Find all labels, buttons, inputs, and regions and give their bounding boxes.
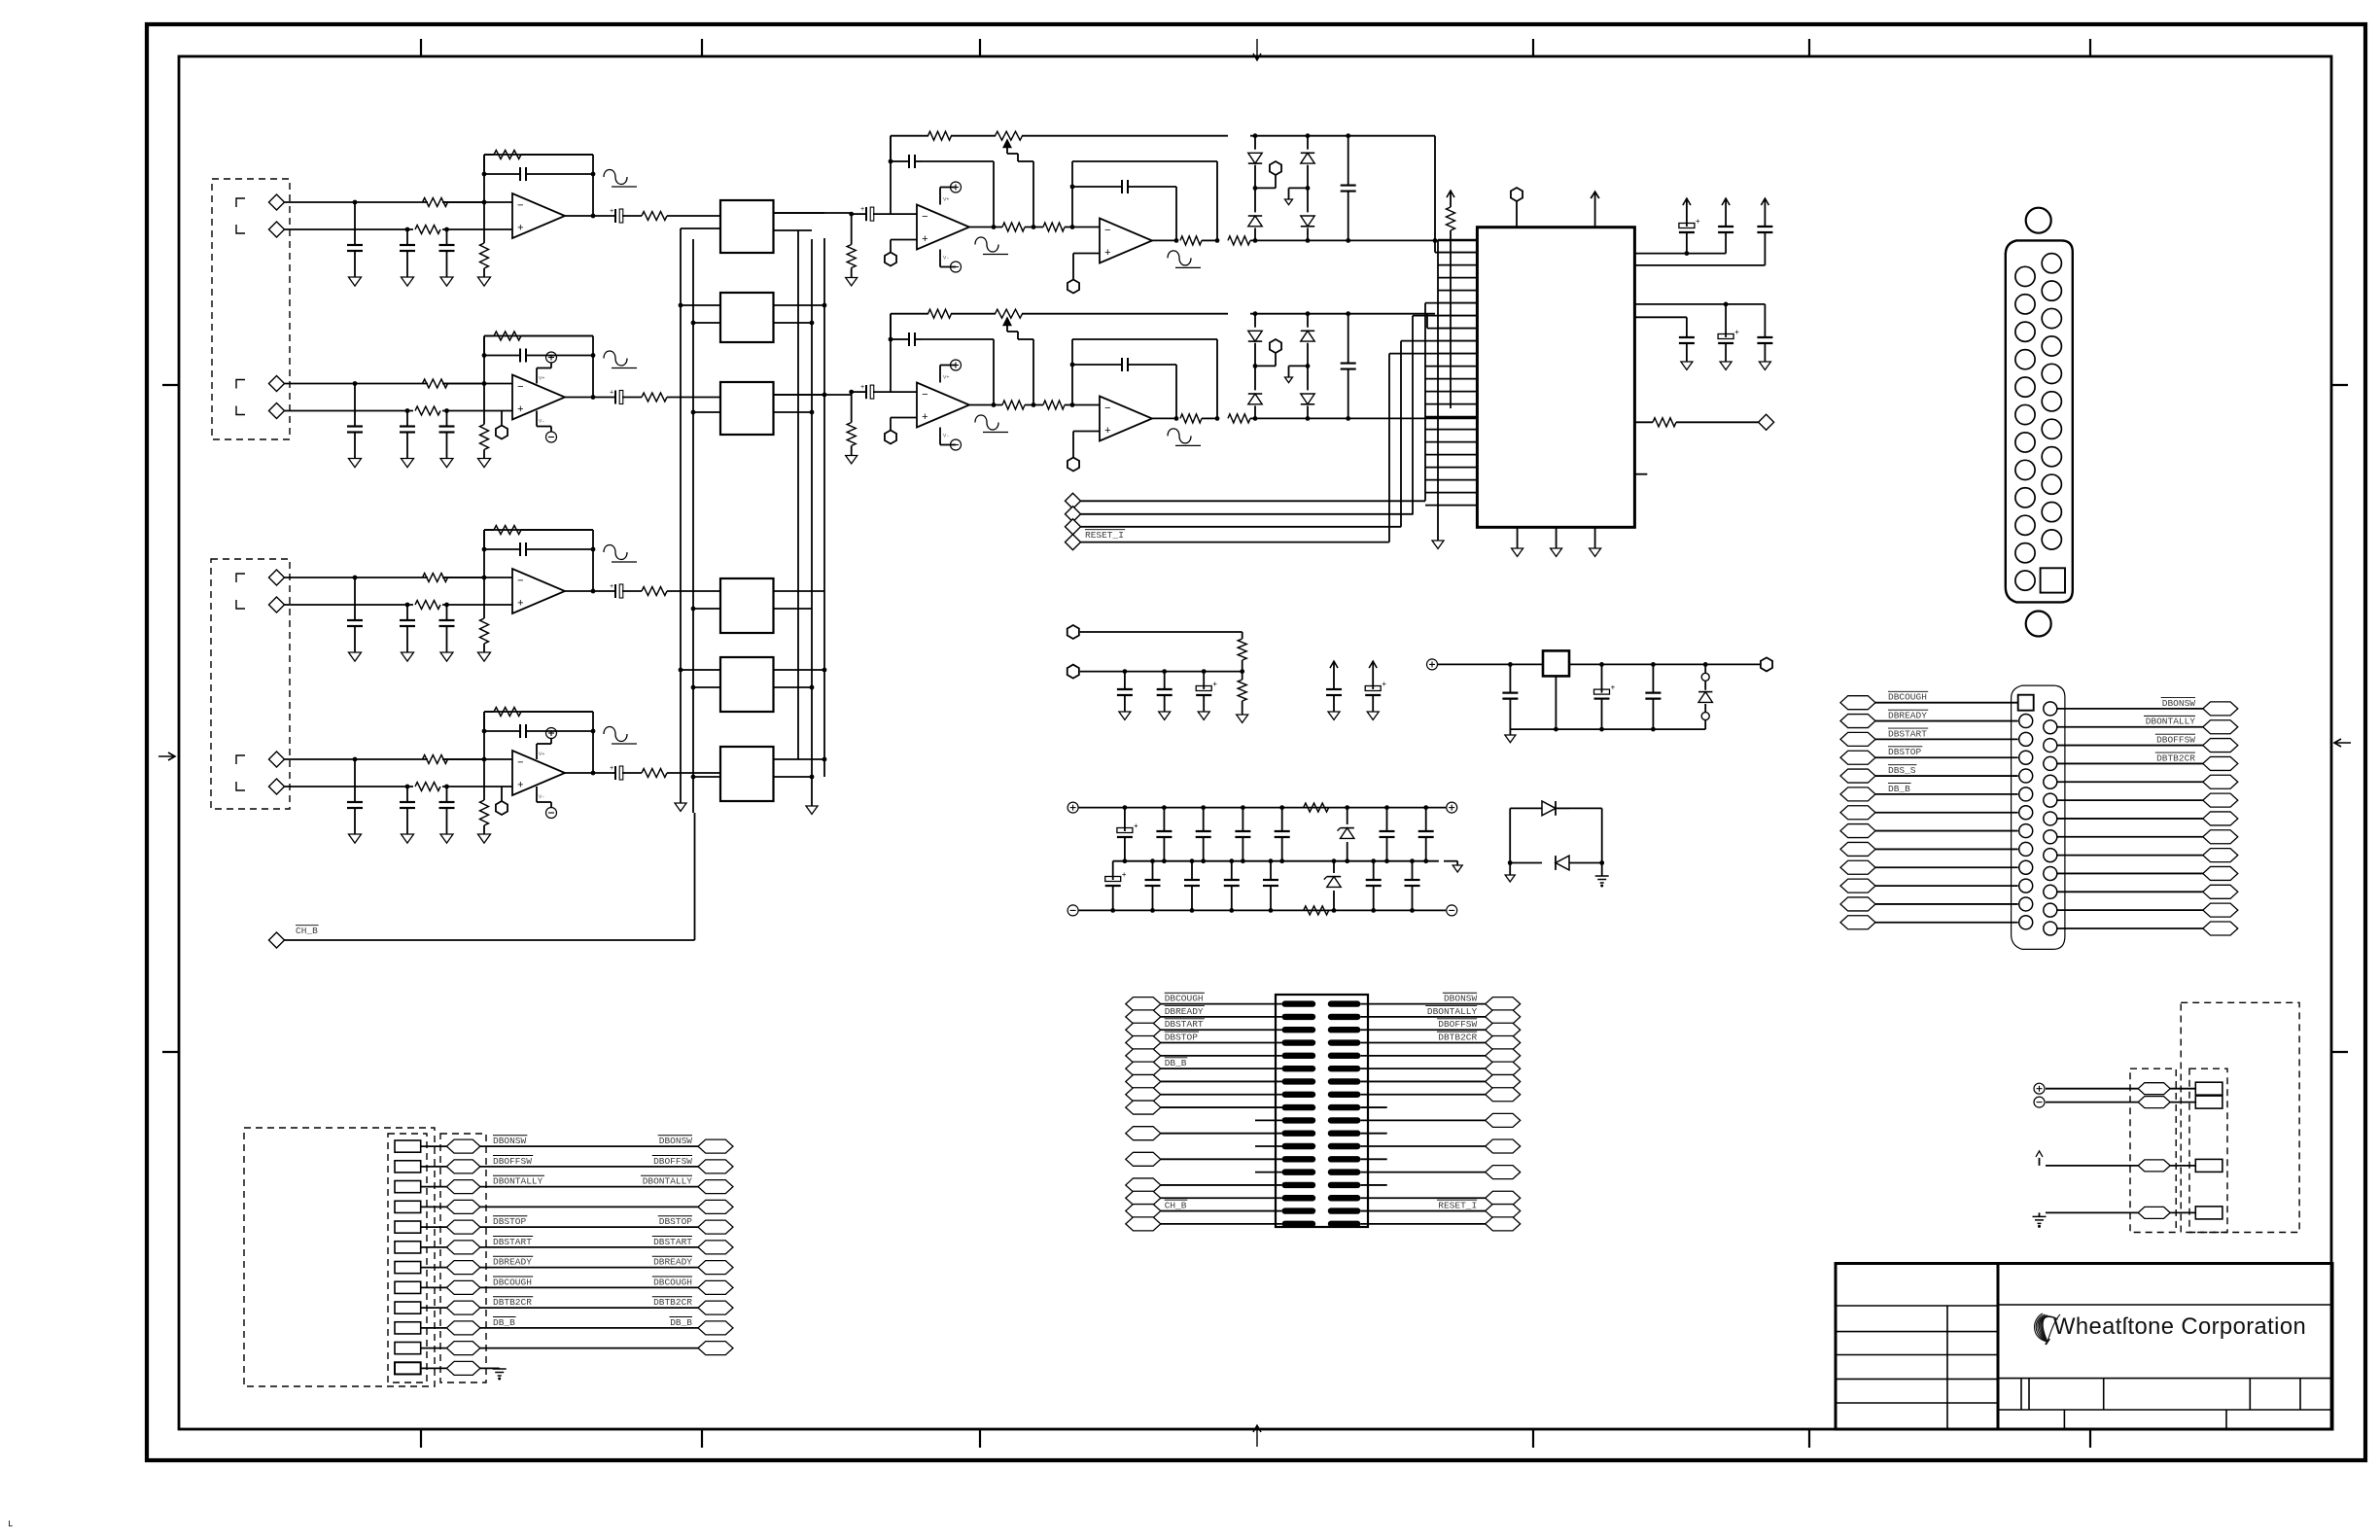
- trimmer leg vertical: [1032, 161, 1034, 227]
- aux diode D1 (right-pointing): [1542, 801, 1556, 816]
- feedback resistor: [494, 332, 521, 340]
- J4 row wire to tag: [421, 1307, 447, 1309]
- interstage resistor 2: [1043, 223, 1065, 231]
- J4 row 12 pin rect: [395, 1362, 421, 1374]
- left bus wire: [692, 239, 694, 813]
- J3 left wire + tag: [1126, 1049, 1161, 1063]
- svg-text:+: +: [922, 412, 928, 424]
- IC bus vertical to ground: [1437, 240, 1439, 541]
- IC left pin stubs: [1438, 239, 1477, 241]
- J4 row right hex tag: [698, 1241, 733, 1254]
- stage B input junction: [1070, 225, 1075, 229]
- regulator ground arrow: [1509, 729, 1511, 735]
- J3 right wire + tag: [1486, 1113, 1521, 1127]
- svg-text:−: −: [1104, 403, 1111, 415]
- bias resistor to ground: [483, 577, 485, 618]
- sine response symbol: [604, 351, 627, 366]
- J3 right wire + tag: [1486, 1217, 1521, 1231]
- series resistor to relay: [642, 393, 667, 402]
- svg-text:+: +: [1122, 871, 1127, 880]
- top row filter caps right: [1384, 805, 1389, 810]
- top row filter caps: [1123, 805, 1128, 810]
- IC pullup resistor: [1450, 190, 1452, 192]
- J4 row hex tag: [446, 1321, 480, 1335]
- input op-amp: [512, 751, 565, 795]
- J4 row 1 pin rect: [395, 1140, 421, 1152]
- Wheatstone logo feather: [2035, 1313, 2060, 1345]
- interstage resistor 1: [1002, 401, 1025, 409]
- output wire: [565, 397, 614, 399]
- svg-text:DB_B: DB_B: [493, 1317, 515, 1328]
- filter cap C to ground: [406, 605, 408, 620]
- fan wire from chainB top row: [1426, 314, 1428, 329]
- J3 right wire + tag: [1486, 1062, 1521, 1075]
- sine symbol A: [975, 237, 998, 252]
- feedback tap to output: [993, 161, 995, 227]
- output coupling cap (polarized): [614, 209, 616, 223]
- J3 right wire + tag: [1486, 1010, 1521, 1024]
- J4 row hex tag: [446, 1241, 480, 1254]
- J4 row 5 pin rect: [395, 1221, 421, 1233]
- clamp mid hexpad: [1270, 161, 1281, 175]
- rail mid ground arrow: [1444, 860, 1457, 862]
- series resistor R (minus leg): [423, 755, 448, 764]
- svg-text:L: L: [8, 1520, 13, 1529]
- J3 left wire + tag: [1126, 1191, 1161, 1205]
- border left center arrow: [158, 755, 175, 757]
- clamp diode column 1: [1253, 238, 1258, 243]
- clamp mid arrow: [1289, 187, 1309, 189]
- input op-amp: [512, 193, 565, 238]
- decoupling cap: [1725, 197, 1727, 199]
- svg-text:+: +: [1212, 681, 1217, 689]
- J4 last row wire to ground: [480, 1367, 500, 1369]
- svg-text:Wheatſtone Corporation: Wheatſtone Corporation: [2053, 1313, 2306, 1340]
- border top center arrow: [1256, 39, 1258, 60]
- output wire: [565, 215, 614, 217]
- svg-text:DBCOUGH: DBCOUGH: [493, 1277, 532, 1287]
- J4 row net wire: [480, 1267, 698, 1269]
- svg-text:DBONTALLY: DBONTALLY: [493, 1176, 543, 1187]
- output resistor 2: [1228, 414, 1250, 423]
- CH_B terminal diamond: [269, 932, 285, 948]
- svg-text:DBSTOP: DBSTOP: [1165, 1032, 1199, 1043]
- op-amp A V- terminal: [939, 428, 941, 445]
- J2 right net tag: [2203, 812, 2238, 825]
- J3 right stub wire: [1360, 1106, 1386, 1108]
- J3 right wire + tag: [1486, 1074, 1521, 1088]
- relay row1 to chain A wire: [774, 212, 852, 214]
- rail mid wire: [1113, 860, 1439, 862]
- sine symbol B: [1168, 429, 1191, 443]
- J2 DB body outline: [2012, 685, 2065, 949]
- series resistor to relay: [642, 212, 667, 221]
- J4 row hex tag: [446, 1220, 480, 1234]
- svg-text:DBSTOP: DBSTOP: [493, 1216, 527, 1227]
- J4 row net wire: [480, 1286, 698, 1288]
- svg-text:DBOFFSW: DBOFFSW: [653, 1156, 692, 1167]
- input terminal + (diamond): [269, 376, 285, 392]
- svg-text:V+: V+: [539, 375, 545, 382]
- J4 row right hex tag: [698, 1301, 733, 1314]
- trimmer wiper arrow: [1003, 140, 1011, 148]
- op-amp stage B: [1100, 219, 1152, 263]
- connector bracket marks: [236, 198, 245, 207]
- svg-text:DBCOUGH: DBCOUGH: [1888, 692, 1927, 703]
- op-amp + input hexpad: [496, 426, 507, 439]
- J1 DB25 mounting hole bottom: [2026, 612, 2051, 637]
- border zone ticks left: [162, 384, 179, 386]
- filter cap C to ground: [406, 787, 408, 802]
- filter cap C to ground: [446, 229, 448, 245]
- op-amp A V+ terminal: [939, 366, 941, 383]
- J3 right wire + tag: [1486, 1205, 1521, 1218]
- J3 right wire + tag: [1486, 1139, 1521, 1153]
- top rail series resistor: [1304, 803, 1329, 812]
- filter cap C to ground: [354, 202, 356, 245]
- regulator ground lead: [1555, 677, 1557, 730]
- feedback cap B row: [1072, 186, 1121, 188]
- svg-text:V-: V-: [539, 418, 545, 425]
- J4 row hex tag: [446, 1200, 480, 1213]
- filter cap C to ground: [406, 229, 408, 245]
- svg-text:DBREADY: DBREADY: [1888, 711, 1927, 721]
- title block left table rows: [1836, 1305, 1998, 1307]
- svg-text:RESET_I: RESET_I: [1438, 1201, 1477, 1211]
- rail V+ terminal left: [1067, 802, 1078, 813]
- svg-text:DB_B: DB_B: [1165, 1058, 1187, 1068]
- svg-text:DBOFFSW: DBOFFSW: [493, 1156, 532, 1167]
- decoupling cap: [1764, 304, 1766, 329]
- svg-text:+: +: [1696, 218, 1700, 227]
- svg-text:DBONSW: DBONSW: [659, 1136, 693, 1146]
- relay K6: [720, 747, 774, 801]
- feedback cap: [519, 724, 521, 738]
- svg-text:+: +: [517, 781, 524, 792]
- input terminal - (diamond): [269, 597, 285, 612]
- J3 pin pair row 16: [1282, 1195, 1316, 1201]
- svg-text:DBSTART: DBSTART: [1888, 728, 1927, 739]
- trimmer leg vertical: [1032, 339, 1034, 405]
- op-amp + input hexpad: [496, 801, 507, 815]
- J4 row wire to tag: [421, 1166, 447, 1168]
- svg-text:+: +: [1104, 248, 1111, 260]
- IC top hexpad: [1511, 188, 1522, 201]
- svg-text:DBREADY: DBREADY: [1165, 1006, 1204, 1017]
- J3 right wire + tag: [1486, 1166, 1521, 1179]
- feedback row B wire: [1071, 161, 1073, 227]
- J3 pin pair row 18: [1282, 1221, 1316, 1227]
- J3 right wire + tag: [1486, 1036, 1521, 1050]
- V- supply terminal: [536, 787, 538, 802]
- series resistor to relay: [642, 587, 667, 596]
- feedback tap to output: [993, 339, 995, 405]
- clamp mid arrow: [1289, 365, 1309, 367]
- border zone ticks bottom: [420, 1429, 422, 1448]
- J2 right net tag: [2203, 775, 2238, 788]
- power dropper resistor chain: [1240, 669, 1244, 674]
- svg-text:DBCOUGH: DBCOUGH: [653, 1277, 692, 1287]
- J4 row net wire: [480, 1347, 698, 1349]
- wire pair from connector: [285, 758, 429, 760]
- op-amp stage B: [1100, 397, 1152, 441]
- svg-text:DBOFFSW: DBOFFSW: [2156, 735, 2195, 746]
- svg-text:+: +: [610, 583, 613, 591]
- J4 row wire to tag: [421, 1367, 447, 1369]
- title block logo band: [1998, 1304, 2332, 1306]
- J4 row 2 pin rect: [395, 1161, 421, 1172]
- series resistor R (minus leg): [423, 379, 448, 388]
- relay K3: [720, 382, 774, 435]
- svg-text:+: +: [1382, 681, 1386, 689]
- bottom rail series resistor: [1304, 906, 1329, 915]
- svg-text:DBCOUGH: DBCOUGH: [1165, 994, 1204, 1004]
- regulator output wire: [1569, 663, 1760, 665]
- svg-text:+: +: [1734, 329, 1739, 337]
- title block outline: [1836, 1264, 2332, 1430]
- series resistor R (minus leg): [423, 198, 448, 207]
- feedback cap B row: [1072, 364, 1121, 366]
- J4 row 6 pin rect: [395, 1242, 421, 1253]
- right bus wire: [797, 230, 799, 759]
- svg-text:DBSTART: DBSTART: [493, 1237, 532, 1247]
- svg-text:+: +: [922, 234, 928, 246]
- relay row3 to chain B wire: [774, 394, 852, 396]
- J4 row net wire: [480, 1327, 698, 1329]
- J4 row 7 pin rect: [395, 1262, 421, 1274]
- regulator output cap 2: [1652, 664, 1654, 692]
- svg-text:DBSTOP: DBSTOP: [1888, 747, 1922, 757]
- svg-text:V-: V-: [539, 793, 545, 800]
- svg-text:−: −: [1104, 226, 1111, 237]
- J5 earth ground: [2033, 1215, 2047, 1217]
- J3 left wire + tag: [1126, 1205, 1161, 1218]
- J3 right wire + tag: [1486, 1023, 1521, 1036]
- J3 right wire + tag: [1486, 1191, 1521, 1205]
- svg-text:+: +: [860, 206, 864, 214]
- J3 pin pair row 7: [1282, 1078, 1316, 1084]
- decoupling cap: [1686, 197, 1688, 199]
- output resistor 1: [1180, 414, 1202, 423]
- J5 row hex tag: [2138, 1207, 2170, 1218]
- J4 row net wire: [480, 1226, 698, 1228]
- opamp B output: [1152, 239, 1176, 241]
- J5 row wire: [2046, 1165, 2138, 1167]
- aux control diamonds: [1066, 493, 1081, 508]
- input terminal + (diamond): [269, 752, 285, 767]
- J3 pin pair row 13: [1282, 1156, 1316, 1162]
- interstage resistor 2: [1043, 401, 1065, 409]
- input connector dashed box A (CH A): [212, 179, 290, 439]
- aux diode loop verticals: [1509, 808, 1511, 862]
- output wire: [565, 590, 614, 592]
- J3 pin pair row 8: [1282, 1092, 1316, 1098]
- series resistor R (minus leg): [423, 574, 448, 582]
- aux loop ground left: [1509, 863, 1511, 876]
- J3 left wire + tag: [1126, 1178, 1161, 1192]
- J4 row 8 pin rect: [395, 1281, 421, 1293]
- svg-text:−: −: [517, 577, 524, 588]
- J3 pin pair row 14: [1282, 1169, 1316, 1174]
- svg-text:+: +: [860, 384, 864, 392]
- junction dots: [353, 381, 358, 386]
- J1 DB25 pin 25 square: [2041, 568, 2065, 592]
- feedback top row: [891, 313, 928, 315]
- output hf cap: [1346, 238, 1350, 243]
- J2 right net tag: [2203, 702, 2238, 716]
- feedback resistor: [494, 151, 521, 159]
- J4 row right hex tag: [698, 1261, 733, 1275]
- series resistor R (plus leg): [415, 601, 440, 610]
- IC right decoupling group 2: [1634, 303, 1765, 305]
- op-amp B + input hexpad: [1067, 458, 1079, 472]
- wire pair from connector: [285, 201, 429, 203]
- fan wire chain A output to pin1: [1435, 239, 1477, 241]
- input terminal + (diamond): [269, 194, 285, 210]
- title block left table column: [1946, 1306, 1948, 1429]
- interstage resistor 1: [1002, 223, 1025, 231]
- J3 right stub wire: [1360, 1184, 1386, 1186]
- input terminal - (diamond): [269, 403, 285, 419]
- J4 row wire to tag: [421, 1347, 447, 1349]
- relay K4: [720, 578, 774, 633]
- svg-text:V-: V-: [943, 433, 950, 439]
- svg-text:+: +: [1104, 426, 1111, 437]
- CH_B bus wire: [694, 813, 696, 940]
- J3 pin pair row 17: [1282, 1207, 1316, 1213]
- J3 left wire + tag: [1126, 1127, 1161, 1140]
- filter cap C to ground: [446, 411, 448, 427]
- J2 left net tags: [1840, 696, 1875, 710]
- J4 row wire to tag: [421, 1327, 447, 1329]
- feedback cap CA: [902, 160, 908, 162]
- clamp diode column 2: [1306, 416, 1311, 421]
- J4 row net wire: [480, 1186, 698, 1188]
- decoupling cap: [1764, 197, 1766, 199]
- J3 pin pair row 9: [1282, 1104, 1316, 1110]
- series resistor to relay: [642, 769, 667, 778]
- svg-text:DBONTALLY: DBONTALLY: [1427, 1006, 1478, 1017]
- J4 row right hex tag: [698, 1280, 733, 1294]
- svg-text:DBTB2CR: DBTB2CR: [493, 1297, 532, 1308]
- feedback cap: [519, 167, 521, 181]
- title block main divider: [1997, 1264, 2000, 1430]
- feedback loop wires: [483, 712, 485, 759]
- J4 row net wire: [480, 1145, 698, 1147]
- title block band B cells: [2063, 1410, 2065, 1429]
- input shunt resistor to ground: [851, 214, 853, 244]
- J5 V+ terminal: [2034, 1083, 2045, 1094]
- zener top: [1345, 805, 1349, 810]
- svg-text:DBTB2CR: DBTB2CR: [653, 1297, 692, 1308]
- regulator protection diode: [1704, 664, 1706, 673]
- junction dots: [353, 757, 358, 762]
- J4 row right hex tag: [698, 1321, 733, 1335]
- J5 row pin rect: [2195, 1159, 2222, 1172]
- series resistor R (plus leg): [415, 226, 440, 234]
- feedback loop wires: [483, 155, 485, 202]
- J3 left wire + tag: [1126, 1074, 1161, 1088]
- svg-text:+: +: [517, 224, 524, 235]
- box right stubs: [774, 212, 825, 214]
- svg-text:DBSTART: DBSTART: [1165, 1019, 1204, 1030]
- sine response symbol: [604, 727, 627, 742]
- regulator VR1 input terminal: [1427, 659, 1438, 670]
- J5 row pin rect: [2195, 1082, 2222, 1095]
- J4 row right hex tag: [698, 1139, 733, 1153]
- svg-text:+: +: [610, 390, 613, 398]
- output resistor 2: [1228, 236, 1250, 245]
- J2 right net tag: [2203, 885, 2238, 898]
- J2 right net tag: [2203, 720, 2238, 734]
- J3 left wire + tag: [1126, 1217, 1161, 1231]
- J4 row right hex tag: [698, 1342, 733, 1355]
- J2 right net tag: [2203, 756, 2238, 770]
- output coupling cap (polarized): [614, 584, 616, 598]
- J5 V- terminal: [2034, 1097, 2045, 1107]
- J2 right net tag: [2203, 793, 2238, 807]
- J5 row pin rect: [2195, 1096, 2222, 1108]
- svg-text:V-: V-: [943, 255, 950, 262]
- J4 row hex tag: [446, 1280, 480, 1294]
- feedback loop wires: [483, 530, 485, 577]
- op-amp stage A: [917, 383, 969, 428]
- filter cap C to ground: [354, 384, 356, 427]
- J3 left wire + tag: [1126, 1036, 1161, 1050]
- wire pair from connector: [285, 383, 429, 385]
- J4 earth ground: [493, 1368, 507, 1370]
- filter cap C to ground: [354, 759, 356, 802]
- J1 DB25 body outline: [2006, 240, 2073, 602]
- J3 pin pair row 6: [1282, 1066, 1316, 1071]
- output wire: [565, 772, 614, 774]
- bias resistor to ground: [483, 202, 485, 243]
- J4 row wire to tag: [421, 1267, 447, 1269]
- opamp B output: [1152, 417, 1176, 419]
- svg-text:CH_B: CH_B: [296, 926, 318, 936]
- J5 outer dashed box: [2181, 1002, 2299, 1232]
- feedback cap: [519, 349, 521, 363]
- output coupling cap (polarized): [614, 766, 616, 780]
- J2 left pins: [2019, 715, 2033, 728]
- feedback top row: [891, 135, 928, 137]
- svg-text:DBONSW: DBONSW: [2162, 698, 2196, 709]
- J4 row hex tag: [446, 1180, 480, 1194]
- J5 rect dashed box: [2189, 1068, 2227, 1232]
- fan wire from chainA top row: [1434, 136, 1436, 253]
- title block band A cells: [1998, 1409, 2332, 1411]
- feedback resistor: [494, 708, 521, 717]
- J4 row wire to tag: [421, 1286, 447, 1288]
- clamp diode column 2: [1306, 238, 1311, 243]
- clamp mid hexpad: [1270, 339, 1281, 353]
- J3 left wire + tag: [1126, 1101, 1161, 1114]
- J5 row hex tag: [2138, 1083, 2170, 1095]
- feedback trimmer: [996, 309, 1023, 318]
- sine response symbol: [604, 170, 627, 185]
- power hex terminal 1: [1067, 625, 1079, 639]
- svg-text:DBREADY: DBREADY: [653, 1257, 692, 1268]
- decoupling cap: [1686, 317, 1688, 329]
- bus ground: [680, 798, 682, 803]
- output resistor 1: [1180, 236, 1202, 245]
- J4 row net wire: [480, 1246, 698, 1248]
- svg-text:−: −: [922, 390, 928, 402]
- J2 right pins: [2044, 702, 2057, 716]
- box left stubs: [681, 227, 720, 229]
- svg-text:−: −: [517, 201, 524, 213]
- border bottom center arrow: [1256, 1425, 1258, 1447]
